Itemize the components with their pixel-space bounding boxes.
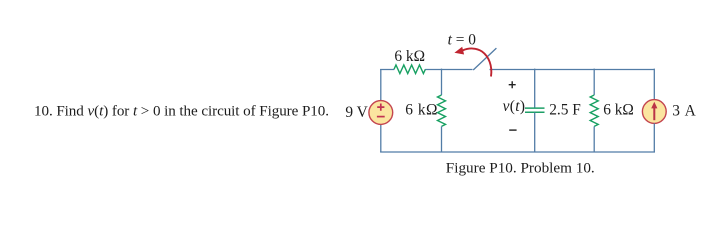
svg-text:3 A: 3 A xyxy=(672,102,697,119)
svg-text:6 kΩ: 6 kΩ xyxy=(394,48,425,65)
wire: right rail lower xyxy=(653,123,655,152)
svg-text:Figure P10. Problem 10.: Figure P10. Problem 10. xyxy=(446,160,595,177)
svg-text:v(t): v(t) xyxy=(503,98,526,115)
polarity plus of v(t) xyxy=(509,81,516,88)
svg-text:2.5 F: 2.5 F xyxy=(549,102,581,119)
value label 9 V xyxy=(345,104,367,121)
wire: top right segment (switch right contact to right rail) xyxy=(490,69,655,71)
switch actuation arc t=0 xyxy=(454,47,491,77)
wire: capacitor branch lower xyxy=(534,113,536,152)
value label 3 A xyxy=(672,102,697,119)
resistor R3 6k vertical xyxy=(590,95,598,126)
polarity minus of v(t) xyxy=(509,129,516,131)
svg-text:6 kΩ: 6 kΩ xyxy=(603,102,634,119)
wire: branch node A lower xyxy=(441,126,443,152)
voltage source V1 9V xyxy=(369,101,393,125)
value label 6 kOhm (R1) xyxy=(394,48,425,65)
svg-text:9 V: 9 V xyxy=(345,104,367,121)
wire: left rail lower segment xyxy=(380,124,382,152)
svg-text:10. Find v(t) for t > 0 in the: 10. Find v(t) for t > 0 in the circuit o… xyxy=(34,103,329,119)
value label 6 kOhm (R2) xyxy=(405,102,438,119)
wire: right rail upper xyxy=(653,69,655,100)
wire: top left segment (left corner to switch left contact) xyxy=(380,69,472,71)
problem statement text xyxy=(34,103,329,119)
node label v(t) xyxy=(503,98,526,115)
wire: capacitor branch upper xyxy=(534,69,536,108)
resistor R1 6k horizontal xyxy=(394,65,425,74)
label t = 0 xyxy=(448,32,477,49)
svg-text:6 kΩ: 6 kΩ xyxy=(405,102,438,119)
wire: resistor branch B upper xyxy=(593,69,595,95)
current source I1 3A xyxy=(642,100,666,124)
capacitor C1 2.5F xyxy=(525,108,545,112)
wire: branch node A upper xyxy=(441,69,443,95)
wire: bottom rail xyxy=(380,151,655,153)
figure caption xyxy=(446,160,595,177)
wire: resistor branch B lower xyxy=(593,126,595,152)
resistor R2 6k vertical xyxy=(438,95,446,126)
svg-text:t = 0: t = 0 xyxy=(448,32,477,49)
value label 6 kOhm (R3) xyxy=(603,102,634,119)
switch blade xyxy=(473,48,496,70)
wire: left rail upper segment xyxy=(380,69,382,101)
value label 2.5 F xyxy=(549,102,581,119)
